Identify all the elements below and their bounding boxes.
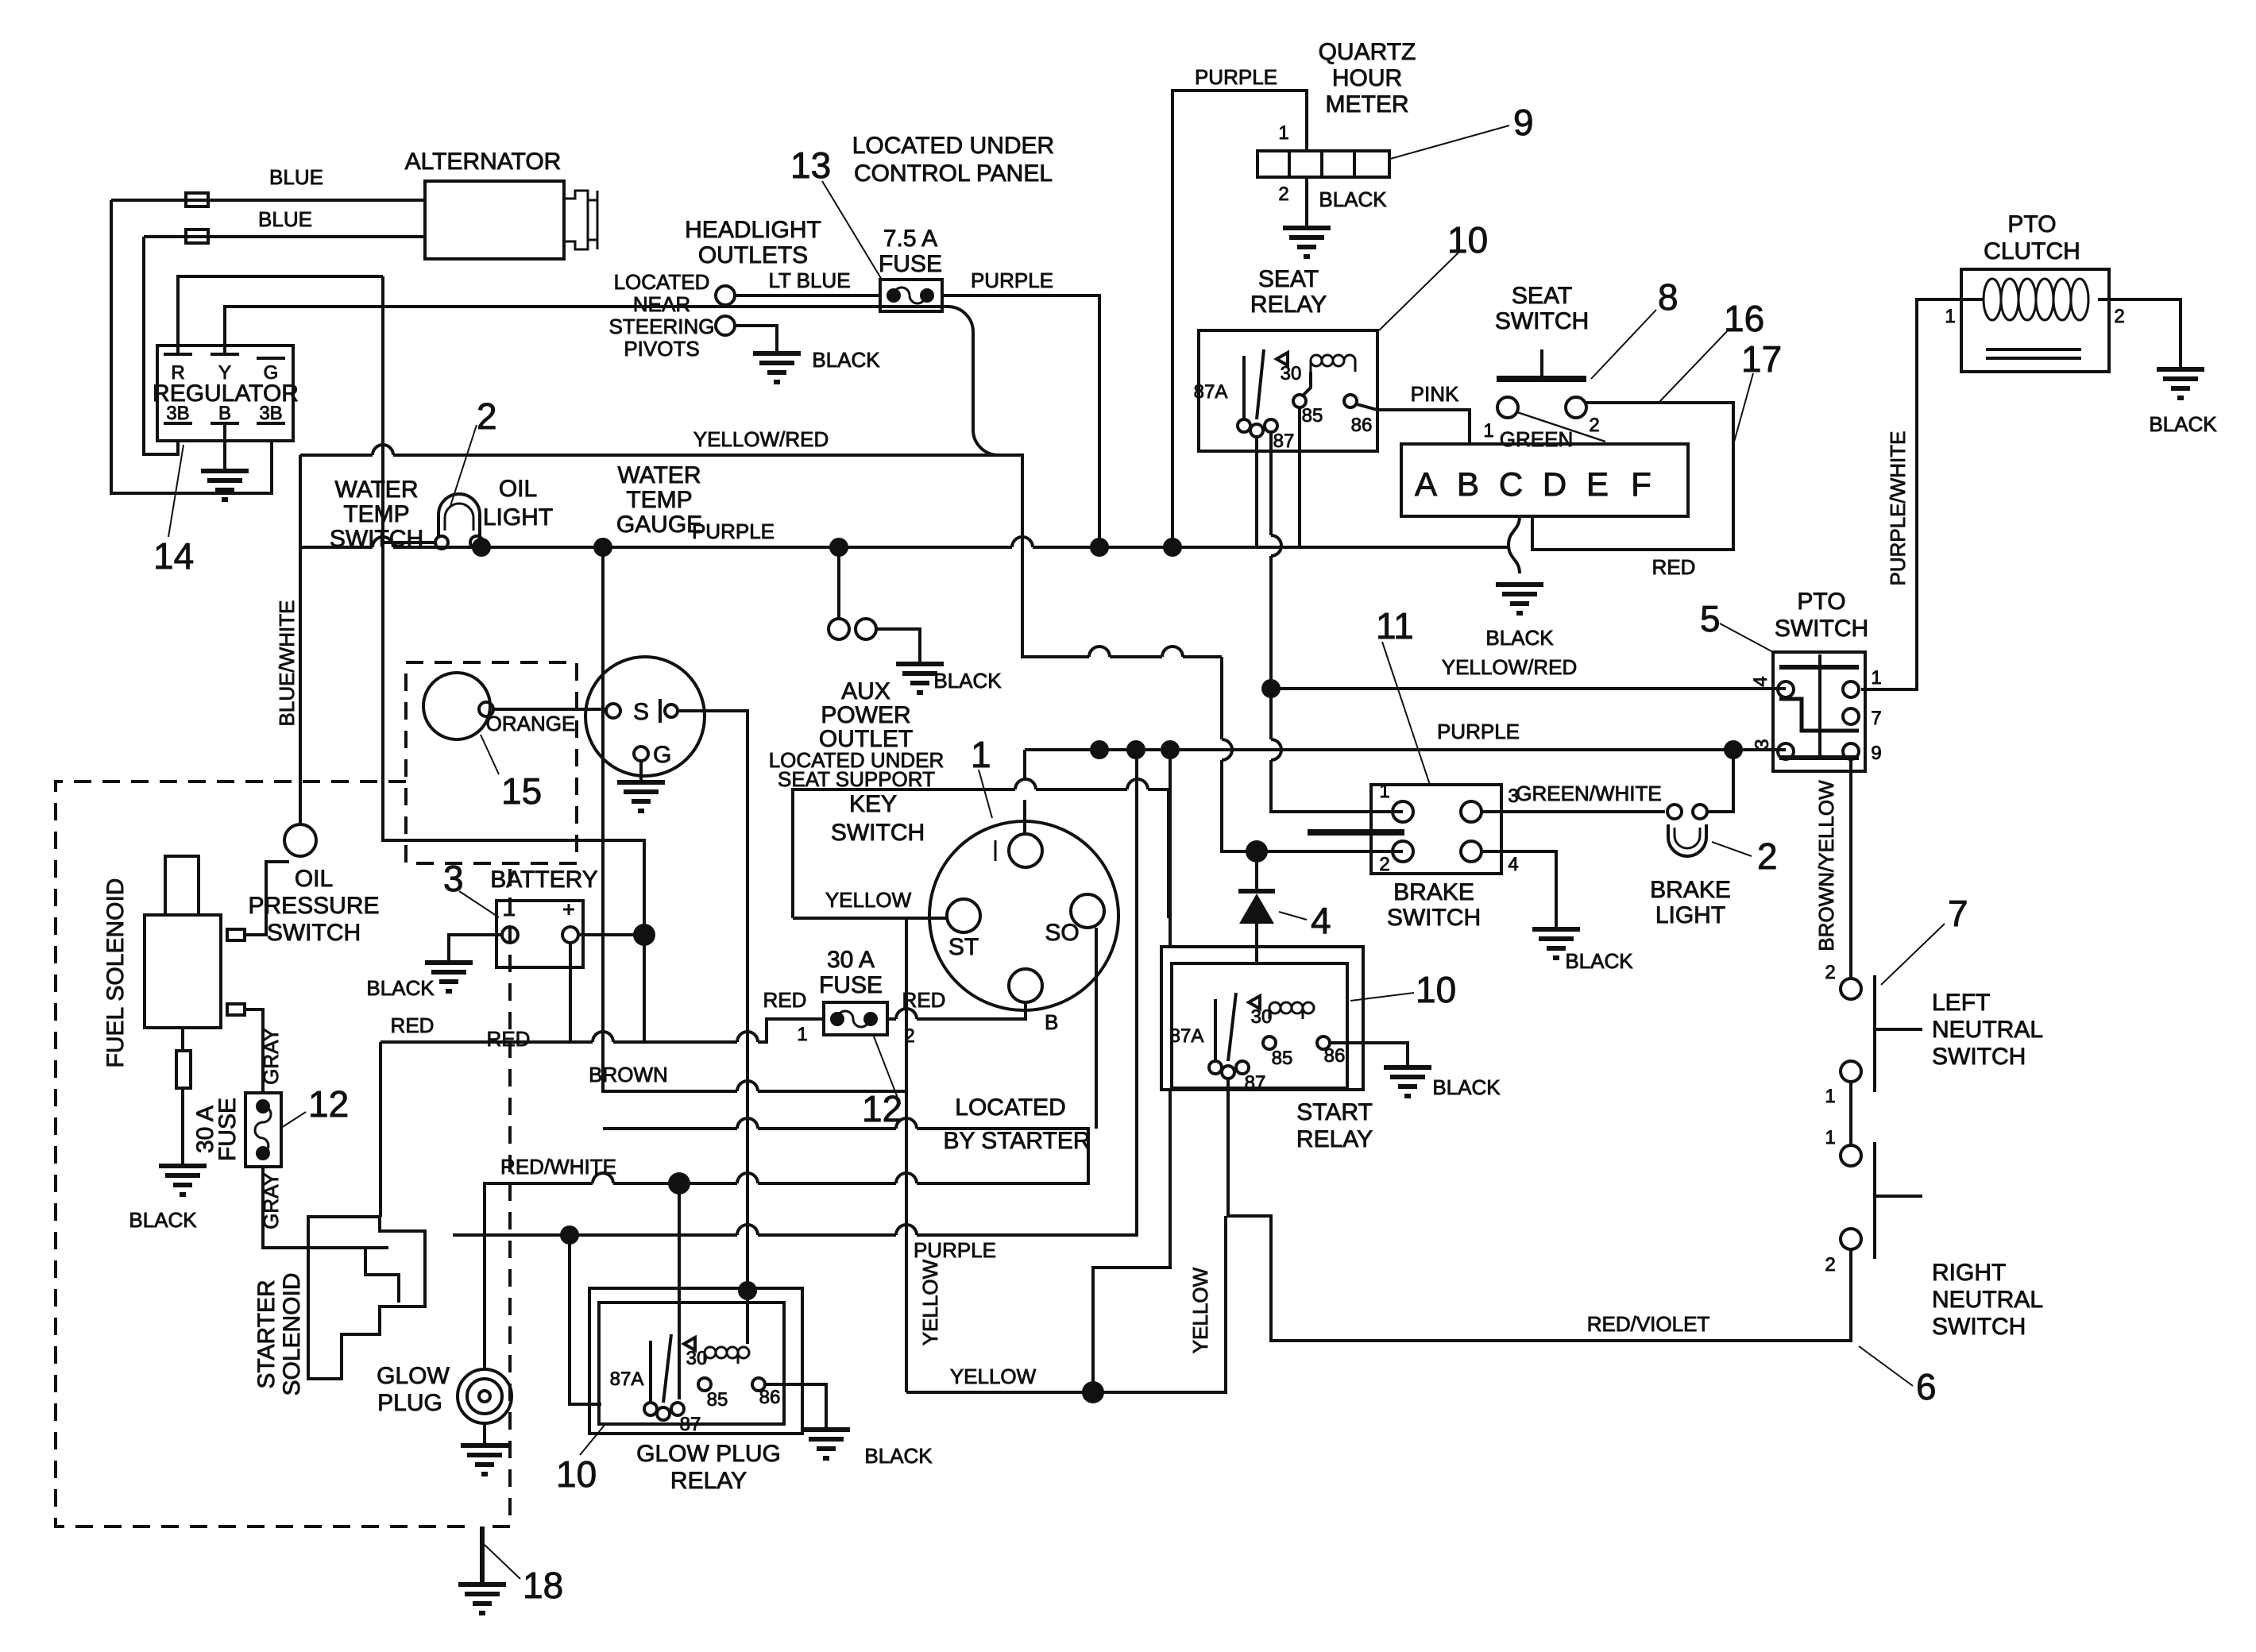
key switch big circle	[929, 821, 1118, 1010]
svg-text:SWITCH: SWITCH	[831, 820, 925, 846]
callout 3 leader	[459, 891, 499, 917]
svg-text:87: 87	[1273, 430, 1295, 452]
svg-text:PURPLE: PURPLE	[1437, 720, 1520, 743]
key switch ST contact	[947, 899, 980, 932]
regulator box	[157, 345, 293, 441]
start relay box	[1172, 963, 1347, 1088]
hop purple bus over R wire	[373, 537, 393, 547]
callout 16 leader	[1659, 329, 1729, 403]
svg-text:1: 1	[1825, 1127, 1835, 1148]
svg-text:30: 30	[686, 1348, 708, 1369]
ground hour meter	[1283, 228, 1331, 257]
svg-text:85: 85	[1302, 405, 1323, 427]
svg-text:7: 7	[1871, 708, 1881, 729]
connector on blue top wire	[186, 193, 208, 206]
hop yellow/red y827 over x1476	[1162, 647, 1183, 657]
wire SO down	[1095, 928, 1098, 1129]
wire blue top from alternator	[111, 199, 425, 202]
battery plus	[563, 904, 574, 915]
glow plug relay coil	[705, 1347, 749, 1364]
svg-text:PINK: PINK	[1411, 382, 1459, 406]
seat relay coil tail to 85	[1303, 372, 1311, 396]
wire headlight outlet 2 to ground	[735, 326, 777, 353]
glow plug relay blade	[651, 1334, 695, 1404]
svg-text:13: 13	[790, 145, 831, 186]
svg-text:RELAY: RELAY	[1250, 291, 1327, 318]
wire lt blue to fuse	[735, 294, 880, 297]
pto switch box	[1773, 652, 1865, 771]
gauge G terminal	[634, 747, 648, 761]
seat switch contact 1	[1497, 397, 1518, 418]
brake switch contacts	[1393, 801, 1413, 822]
svg-text:FUEL SOLENOID: FUEL SOLENOID	[102, 878, 129, 1068]
fuse 30A center box	[824, 1002, 887, 1035]
key switch I contact	[1009, 834, 1042, 867]
hop brown over gauge wire	[737, 1081, 758, 1091]
callout 1 leader	[979, 770, 992, 818]
wire B down to fuse	[887, 1002, 1026, 1019]
svg-text:BLACK: BLACK	[812, 348, 880, 372]
svg-text:BLUE: BLUE	[269, 165, 323, 189]
svg-text:YELLOW: YELLOW	[950, 1364, 1037, 1388]
svg-text:QUARTZ: QUARTZ	[1319, 39, 1416, 65]
svg-text:2: 2	[1379, 854, 1389, 875]
fuel solenoid top cap	[165, 856, 199, 915]
svg-text:E: E	[1586, 465, 1609, 503]
fuse 30A left element	[255, 1106, 271, 1153]
callout 10 start relay leader	[1350, 993, 1414, 1001]
ground gauge	[617, 782, 665, 811]
svg-text:10: 10	[1416, 969, 1456, 1010]
svg-text:YELLOW: YELLOW	[1188, 1267, 1212, 1353]
wire regulator R up and right	[178, 276, 383, 354]
svg-text:14: 14	[153, 535, 194, 577]
svg-text:3: 3	[1752, 739, 1773, 749]
aux outlet circle 1	[829, 619, 849, 639]
node dot purple x1476	[1163, 538, 1182, 557]
svg-text:OIL: OIL	[295, 866, 333, 892]
svg-text:OIL: OIL	[499, 476, 537, 502]
right neutral switch blade	[1875, 1142, 1922, 1259]
svg-text:87A: 87A	[610, 1368, 644, 1390]
svg-text:16: 16	[1724, 298, 1764, 339]
svg-text:SEAT: SEAT	[1512, 283, 1572, 309]
ground connector	[1496, 585, 1543, 613]
regulator B ground wire	[223, 423, 226, 471]
node dot gauge wire into enclosure	[738, 1281, 757, 1300]
oil light terminals	[435, 536, 448, 549]
svg-text:4: 4	[1750, 676, 1771, 686]
glow plug relay enclosure	[589, 1288, 802, 1434]
svg-text:GAUGE: GAUGE	[616, 511, 702, 538]
aux power outlet wire	[837, 547, 840, 619]
svg-text:S: S	[633, 699, 649, 725]
wire yellow/red horizontal	[300, 454, 1022, 457]
svg-text:METER: METER	[1326, 91, 1409, 118]
right neutral switch contact 1	[1841, 1145, 1861, 1166]
svg-text:CONTROL PANEL: CONTROL PANEL	[854, 160, 1053, 187]
wire starter solenoid internal	[365, 1248, 399, 1303]
svg-text:17: 17	[1741, 338, 1782, 380]
svg-text:OUTLETS: OUTLETS	[698, 242, 808, 268]
regulator pin underbars	[164, 422, 285, 425]
brake light terminals	[1667, 805, 1682, 819]
callout 12 fuse leader	[874, 1036, 900, 1104]
ground aux outlet	[896, 664, 944, 693]
starter solenoid body	[308, 1217, 425, 1379]
svg-text:PURPLE: PURPLE	[692, 519, 775, 543]
svg-text:NEUTRAL: NEUTRAL	[1932, 1287, 2043, 1313]
svg-text:B: B	[1457, 465, 1479, 503]
svg-text:BLACK: BLACK	[129, 1208, 197, 1232]
wire pto pin9 down to left neutral	[1849, 759, 1852, 978]
svg-text:GREEN/WHITE: GREEN/WHITE	[1516, 782, 1661, 805]
svg-text:START: START	[1296, 1099, 1373, 1125]
hop purple bottom over yellow drop	[896, 1225, 917, 1235]
callout 2 oil light leader	[450, 425, 477, 508]
svg-text:PURPLE: PURPLE	[971, 268, 1053, 292]
svg-text:9: 9	[1513, 102, 1534, 143]
svg-text:BRAKE: BRAKE	[1650, 877, 1731, 903]
glow plug symbol	[458, 1369, 512, 1423]
ground start relay	[1384, 1067, 1431, 1096]
hop purple bottom over gauge wire	[737, 1225, 758, 1235]
wire pink from seat relay	[1357, 404, 1470, 444]
svg-text:YELLOW: YELLOW	[918, 1259, 942, 1345]
glow plug wire down to ground	[483, 1423, 486, 1445]
pto clutch core bars	[1986, 349, 2081, 358]
node dot purple x1384	[1090, 538, 1109, 557]
svg-text:BLACK: BLACK	[864, 1444, 933, 1468]
wire brake pin4 to ground	[1481, 851, 1556, 929]
wire yellow/red to pto pin4	[1271, 687, 1786, 690]
svg-text:ST: ST	[948, 934, 979, 960]
wire brown	[603, 547, 906, 1091]
svg-text:BROWN: BROWN	[589, 1063, 668, 1087]
glow plug relay box	[599, 1303, 784, 1424]
wire x1473 below relay jog to yellow dot	[1093, 1090, 1170, 1392]
wire glow relay 86 to ground	[765, 1384, 826, 1430]
wire yellow from key switch down	[905, 918, 908, 1392]
svg-text:86: 86	[1324, 1045, 1346, 1067]
hop red wire over gauge wire	[737, 1032, 758, 1042]
hop x1600 over purple low bus	[1271, 739, 1281, 760]
ground glow plug	[461, 1445, 508, 1474]
node dot diode top	[1246, 840, 1268, 863]
water temp switch terminal	[479, 702, 493, 716]
purple bus lower	[1025, 748, 1786, 751]
svg-text:86: 86	[759, 1387, 781, 1408]
wire red/white to 87a glow relay	[678, 1183, 681, 1399]
node dot battery plus	[633, 924, 655, 946]
hop B wire over yellow drop	[896, 1009, 917, 1019]
callout 8 leader	[1591, 310, 1656, 379]
fuel solenoid terminal upper	[227, 929, 245, 940]
svg-text:7.5 A: 7.5 A	[883, 226, 937, 252]
node dot purple low x1473	[1161, 740, 1180, 759]
svg-text:12: 12	[308, 1083, 349, 1125]
hop x1538 over purple low bus	[1222, 739, 1232, 760]
callout 10 glow relay leader	[580, 1424, 605, 1455]
fuse 7.5A element	[894, 288, 925, 303]
wire gauge to glow plug relay	[678, 711, 747, 1344]
diode wire from brake pin2	[1222, 657, 1403, 851]
svg-text:F: F	[1631, 465, 1651, 503]
svg-text:D: D	[1543, 465, 1566, 503]
svg-text:FUSE: FUSE	[819, 972, 883, 998]
svg-text:1: 1	[1871, 667, 1881, 689]
svg-text:PURPLE: PURPLE	[1195, 65, 1277, 89]
svg-text:PTO: PTO	[2007, 211, 2056, 237]
svg-text:1: 1	[1825, 1086, 1835, 1107]
svg-text:1: 1	[971, 734, 991, 775]
ground fuel solenoid	[159, 1166, 207, 1195]
brake light bulb	[1668, 824, 1706, 856]
wire purple to glow relay enclosure	[570, 1235, 601, 1404]
svg-text:RELAY: RELAY	[1296, 1126, 1373, 1152]
svg-text:PURPLE/WHITE: PURPLE/WHITE	[1886, 430, 1910, 585]
wire brake light to purple bus	[1707, 750, 1733, 812]
wire red/white from glow plug	[485, 1183, 679, 1369]
wire yellow horizontal	[906, 1216, 1226, 1392]
svg-text:PIVOTS: PIVOTS	[624, 337, 699, 361]
ground glow relay	[802, 1430, 850, 1458]
wire gray fuse to starter solenoid	[263, 1167, 388, 1248]
key switch box	[793, 789, 1169, 918]
svg-text:B: B	[218, 403, 231, 424]
hop purple bus over yellow/red drop	[1012, 537, 1033, 547]
wire red/white continues right	[603, 1129, 1088, 1183]
hour meter dividers	[1289, 151, 1354, 177]
diode symbol	[1255, 851, 1258, 963]
hop red/white over yellow drop	[896, 1173, 917, 1183]
svg-text:BLUE: BLUE	[258, 207, 312, 231]
svg-text:C: C	[1499, 465, 1523, 503]
wire green/white pin3 to brake light	[1481, 810, 1665, 813]
hop red/white over gauge wire	[737, 1173, 758, 1183]
svg-text:PLUG: PLUG	[377, 1390, 442, 1416]
svg-text:LOCATED UNDER: LOCATED UNDER	[852, 133, 1054, 159]
svg-text:YELLOW/RED: YELLOW/RED	[693, 427, 829, 451]
callout 4 leader	[1279, 912, 1307, 920]
svg-text:3B: 3B	[259, 403, 282, 424]
hop red cable over brown vertical	[593, 1032, 613, 1042]
wire purple bus to I pin	[1023, 750, 1026, 834]
svg-text:GRAY: GRAY	[259, 1028, 283, 1085]
ground engine 18	[458, 1527, 506, 1613]
hop key box over x1430 wire	[1127, 779, 1148, 789]
key switch B contact	[1009, 969, 1042, 1002]
node dot yellow/red junction	[1261, 679, 1281, 698]
svg-text:2: 2	[477, 396, 497, 437]
wire red battery cable	[381, 1019, 824, 1042]
seat switch contact 2	[1566, 397, 1586, 418]
node dot aux power	[829, 538, 848, 557]
hop y1421 over brown drop	[896, 1118, 917, 1129]
start relay outer box	[1161, 947, 1363, 1090]
wire blue/white vertical to oil pressure switch	[299, 455, 302, 826]
wire left loop to regulator 3B right	[111, 200, 272, 493]
callout 6 leader	[1859, 1346, 1913, 1386]
svg-text:STARTER: STARTER	[253, 1280, 280, 1388]
water temp gauge circle	[585, 657, 705, 776]
pto switch contacts	[1778, 681, 1794, 697]
svg-text:2: 2	[1825, 1254, 1835, 1276]
svg-text:A: A	[1415, 465, 1437, 503]
headlight outlet circle 2	[716, 316, 735, 335]
wire fuel solenoid lower gray	[245, 1009, 263, 1093]
svg-text:NEAR: NEAR	[633, 292, 690, 316]
wire blue lower from alternator	[144, 235, 425, 238]
battery terminals	[502, 927, 518, 943]
glow plug relay pin circles	[644, 1403, 657, 1415]
svg-text:LIGHT: LIGHT	[483, 504, 553, 531]
svg-text:TEMP: TEMP	[343, 501, 409, 527]
svg-text:SWITCH: SWITCH	[1932, 1314, 2026, 1340]
ground battery	[425, 963, 473, 991]
oil light symbol	[438, 494, 480, 537]
hour meter ground wire	[1305, 177, 1308, 228]
brake switch box	[1371, 785, 1501, 874]
hour meter purple wire	[1172, 91, 1307, 547]
svg-text:11: 11	[1376, 605, 1414, 647]
pto clutch box	[1961, 269, 2109, 372]
alternator	[425, 181, 597, 259]
hop yellow/red y827 over x1384	[1089, 647, 1110, 657]
oil pressure switch circle	[284, 824, 316, 856]
svg-text:18: 18	[523, 1565, 563, 1606]
svg-text:G: G	[653, 742, 671, 768]
svg-text:HOUR: HOUR	[1332, 65, 1402, 91]
svg-text:2: 2	[1825, 962, 1835, 983]
svg-text:SOLENOID: SOLENOID	[279, 1272, 305, 1395]
svg-text:9: 9	[1871, 743, 1881, 764]
svg-text:RED/VIOLET: RED/VIOLET	[1587, 1312, 1710, 1336]
pto switch top bar	[1779, 665, 1859, 670]
svg-text:YELLOW: YELLOW	[825, 888, 912, 912]
svg-text:SWITCH: SWITCH	[1495, 308, 1589, 334]
fuse 30A center element	[837, 1011, 869, 1027]
ground regulator B	[201, 471, 249, 500]
gauge G ground wire	[639, 761, 643, 782]
start relay blade	[1215, 993, 1260, 1063]
svg-text:STEERING: STEERING	[609, 315, 715, 338]
wire between neutral switches	[1849, 1082, 1852, 1145]
hop yellow/red over R wire	[373, 445, 393, 455]
seat switch plate	[1497, 376, 1586, 382]
wire battery plus drop	[643, 925, 646, 1042]
svg-text:HEADLIGHT: HEADLIGHT	[685, 217, 821, 243]
svg-text:SWITCH: SWITCH	[1775, 616, 1868, 642]
svg-text:FUSE: FUSE	[879, 251, 942, 277]
svg-text:ALTERNATOR: ALTERNATOR	[405, 149, 562, 175]
svg-text:AUX: AUX	[841, 678, 890, 704]
node dot purple glow relay	[560, 1225, 579, 1245]
node dot brown takeoff	[593, 538, 612, 557]
svg-text:LT BLUE: LT BLUE	[768, 268, 850, 292]
svg-text:BLUE/WHITE: BLUE/WHITE	[275, 600, 299, 727]
svg-text:RED: RED	[391, 1013, 435, 1037]
svg-text:87: 87	[1245, 1072, 1266, 1094]
svg-text:KEY: KEY	[849, 791, 897, 817]
aux outlet circle 2	[856, 619, 876, 639]
svg-text:4: 4	[1311, 900, 1331, 941]
svg-text:WATER: WATER	[335, 477, 419, 503]
svg-text:87: 87	[680, 1414, 701, 1435]
callout 12 left fuse leader	[281, 1112, 306, 1128]
svg-text:2: 2	[2114, 306, 2124, 327]
hop y1421 over gauge wire	[737, 1118, 758, 1129]
callout 2 brake light leader	[1712, 842, 1752, 856]
wire aux outlet to ground	[876, 629, 920, 664]
svg-text:BRAKE: BRAKE	[1393, 879, 1474, 905]
svg-text:SWITCH: SWITCH	[1932, 1044, 2026, 1070]
callout 10 seat relay leader	[1379, 253, 1458, 330]
wire red/violet	[1271, 1249, 1851, 1341]
svg-text:YELLOW/RED: YELLOW/RED	[1442, 655, 1578, 679]
ground headlight	[753, 353, 801, 382]
svg-text:85: 85	[707, 1389, 728, 1411]
gauge S terminal	[606, 704, 620, 718]
pto switch jog contact	[1779, 699, 1859, 731]
fuse 7.5A box	[880, 280, 942, 311]
wire seat relay 87 to purple bus	[1255, 437, 1258, 547]
seat relay box	[1199, 330, 1377, 451]
svg-text:BLACK: BLACK	[366, 976, 435, 1000]
seat relay coil	[1311, 355, 1355, 372]
wire fuel solenoid upper to oil pressure	[245, 862, 289, 935]
svg-text:86: 86	[1351, 415, 1373, 436]
callout 9 leader	[1390, 125, 1509, 159]
svg-text:6: 6	[1916, 1366, 1937, 1407]
svg-text:B: B	[1045, 1010, 1058, 1034]
callout 5 leader	[1720, 623, 1773, 652]
purple bus upper	[300, 546, 1509, 549]
wire R down to battery plus	[383, 276, 644, 925]
svg-text:30 A: 30 A	[827, 947, 875, 973]
node dot red/white	[668, 1172, 690, 1195]
svg-text:FUSE: FUSE	[214, 1098, 241, 1161]
svg-text:BLACK: BLACK	[1319, 187, 1387, 211]
node dot oil light	[472, 538, 491, 557]
pto switch center line	[1818, 654, 1821, 758]
svg-text:1: 1	[1483, 420, 1493, 442]
wire purple from fuse	[942, 295, 1099, 547]
svg-text:PURPLE: PURPLE	[914, 1238, 996, 1262]
svg-text:RED: RED	[763, 988, 807, 1012]
callout 15 leader	[481, 735, 499, 774]
fuel solenoid body	[145, 915, 221, 1028]
battery box	[496, 901, 583, 967]
hop red/white over brown vertical	[593, 1173, 613, 1183]
svg-text:87A: 87A	[1194, 381, 1228, 403]
wire start relay 86 to ground	[1330, 1043, 1408, 1067]
pto switch bottom bar	[1779, 755, 1859, 760]
hop key box over I wire	[1015, 779, 1036, 789]
hop x1600 over purple bus	[1271, 535, 1281, 556]
wire battery plus inner drop	[569, 943, 572, 1042]
fuel solenoid terminal lower	[227, 1004, 245, 1015]
svg-text:87A: 87A	[1170, 1025, 1204, 1047]
svg-text:3: 3	[443, 858, 464, 899]
svg-text:PRESSURE: PRESSURE	[248, 893, 379, 919]
wire regulator Y up	[225, 307, 1222, 657]
wire start relay 87 down to red/violet	[1228, 1079, 1271, 1341]
svg-text:TEMP: TEMP	[626, 487, 692, 513]
svg-text:2: 2	[1589, 415, 1599, 436]
svg-text:LOCATED: LOCATED	[614, 270, 710, 294]
svg-text:CLUTCH: CLUTCH	[1984, 238, 2080, 264]
